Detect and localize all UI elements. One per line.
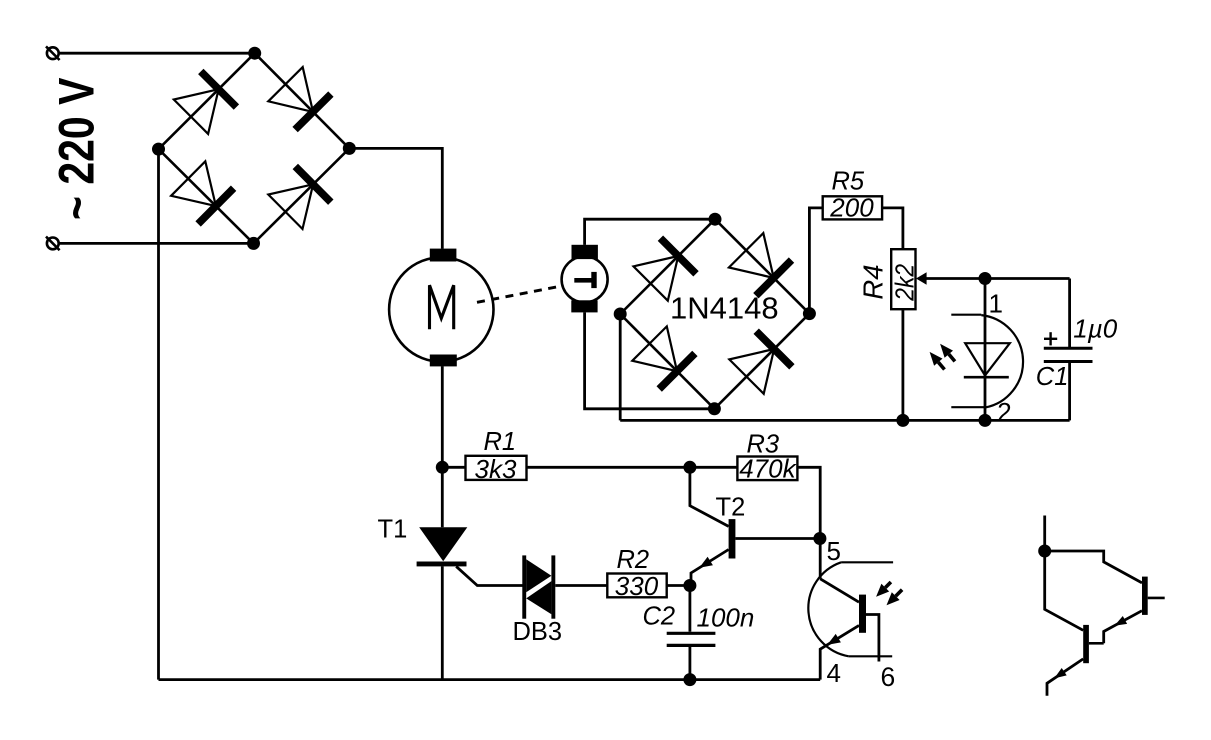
darlington wire to Q2 <box>1045 551 1084 630</box>
diac DB3 left bar <box>522 555 526 618</box>
svg-text:R5: R5 <box>832 167 865 195</box>
LED light arrow 2 <box>938 362 944 369</box>
node B2 left <box>614 308 627 321</box>
C1 plus sign <box>1044 338 1057 340</box>
node B1 bottom <box>247 237 260 250</box>
transistor T2 base lead <box>735 537 820 540</box>
capacitor C2 bottom plate <box>667 644 716 647</box>
node B1 left <box>152 143 165 156</box>
diode D3 (bridge B1 lower-left) <box>171 161 216 206</box>
wire B1 right node to motor <box>349 148 442 248</box>
wire LED branch <box>984 279 987 421</box>
optocoupler LED envelope arc <box>981 315 1023 408</box>
svg-text:1: 1 <box>989 288 1003 318</box>
svg-text:R1: R1 <box>484 428 517 456</box>
node B1 right <box>343 142 356 155</box>
node C2 rail <box>683 673 696 686</box>
capacitor C1 top plate <box>1044 347 1093 350</box>
LED light arrow 1 <box>949 354 955 361</box>
transistor Q2 emitter <box>1047 659 1083 696</box>
svg-text:3k3: 3k3 <box>475 454 517 484</box>
transistor Q2 base bar <box>1083 625 1089 663</box>
wire R4 bottom <box>902 309 905 420</box>
terminal X2 (mains bottom) <box>47 238 59 250</box>
svg-text:2k2: 2k2 <box>891 264 920 302</box>
phototransistor base bar <box>859 595 866 633</box>
diac DB3 lower triangle <box>526 581 551 614</box>
wire node5 down <box>819 539 822 579</box>
wire bridge B1 edge top-left <box>159 53 255 149</box>
transistor T2 base bar <box>729 519 736 558</box>
light arrow into phototransistor 2 <box>896 590 902 596</box>
wire bridge B1 edge bottom-left <box>159 149 254 243</box>
wire R1 to R3 node <box>527 466 690 469</box>
node B1 top <box>248 47 261 60</box>
node pin1 <box>979 272 992 285</box>
wire R5 to R4 <box>882 208 903 249</box>
svg-text:6: 6 <box>881 662 896 692</box>
svg-text:330: 330 <box>615 571 659 601</box>
wire bridge B1 edge top-right <box>255 53 350 148</box>
resistor R3 box <box>737 457 797 481</box>
tachogenerator letter T <box>574 278 592 283</box>
node B2 right <box>803 307 816 320</box>
node darlington collector <box>1038 545 1051 558</box>
optocoupler LED envelope bottom tick <box>951 406 985 408</box>
diode D6 (bridge B2 upper-right) <box>729 233 774 278</box>
wire bridge B1 edge bottom-right <box>254 148 350 243</box>
resistor R5 box <box>823 196 882 219</box>
wire motor bottom <box>441 366 444 527</box>
svg-text:DB3: DB3 <box>513 618 563 646</box>
wire R1 left stub <box>442 466 465 469</box>
optocoupler LED envelope top tick <box>951 314 981 316</box>
wire C2 top <box>689 586 692 632</box>
svg-text:5: 5 <box>827 536 841 566</box>
svg-text:T2: T2 <box>716 493 746 521</box>
transistor T2 collector <box>690 467 729 526</box>
wire common bottom rail <box>159 678 821 681</box>
phototransistor emitter <box>820 625 859 679</box>
wire C1 top <box>1068 279 1071 349</box>
terminal X1 (mains top) <box>47 47 59 59</box>
wire T1 gate <box>456 566 523 585</box>
resistor R2 box <box>607 574 666 598</box>
svg-text:1µ0: 1µ0 <box>1073 313 1117 343</box>
wire tacho bottom <box>585 312 715 408</box>
transistor Q1 base stub <box>1148 597 1165 600</box>
svg-text:C2: C2 <box>643 602 676 630</box>
dashed coupling motor-tacho <box>477 287 559 303</box>
diode D4 (bridge B1 lower-right) <box>268 184 313 229</box>
wire lower rail <box>620 419 1069 422</box>
transistor Q1 emitter <box>1104 611 1142 644</box>
thyristor T1 triangle <box>419 527 467 561</box>
motor M bottom brush <box>430 355 457 367</box>
wire B1 left node down to common rail <box>157 149 160 680</box>
diode D1 (bridge B1 upper-left) <box>174 89 219 134</box>
node R1 left <box>436 461 449 474</box>
diac DB3 right bar <box>551 555 555 618</box>
optocoupler phototransistor envelope arc <box>808 562 848 656</box>
resistor R1 box <box>466 456 527 480</box>
tachogenerator top brush <box>572 245 598 259</box>
transistor Q2 base lead <box>1089 642 1104 645</box>
light arrow into phototransistor 1 <box>885 582 891 588</box>
wire bridge B2 edge top-right <box>715 219 809 313</box>
phototransistor base lead pin6 <box>866 615 879 662</box>
wire tacho top <box>585 219 715 245</box>
wire R3 right to node5 <box>797 467 820 538</box>
wire mains top <box>59 52 255 55</box>
diode D5 (bridge B2 upper-left) <box>634 256 679 301</box>
darlington top stub <box>1043 516 1046 552</box>
diode D8 (bridge B2 lower-right) <box>729 349 774 394</box>
transistor Q2 emitter arrow <box>1054 668 1067 678</box>
svg-text:100n: 100n <box>697 603 755 633</box>
capacitor C1 bottom plate <box>1044 360 1093 363</box>
wire DB3 to R2 <box>555 584 607 587</box>
motor M top brush <box>430 249 457 262</box>
wire C2 bottom <box>689 647 692 680</box>
svg-text:~ 220 V: ~ 220 V <box>49 77 105 220</box>
wire bridge B2 edge top-left <box>620 219 715 314</box>
transistor T2 emitter arrow <box>699 557 713 568</box>
diode D7 (bridge B2 lower-left) <box>632 326 677 371</box>
wire bridge B2 edge bottom-right <box>714 314 809 409</box>
svg-text:4: 4 <box>827 658 841 688</box>
node B2 bottom <box>708 402 721 415</box>
optocoupler phototransistor envelope bottom tick <box>849 655 893 657</box>
wire R2 to node <box>667 584 690 587</box>
motor M letter <box>430 285 454 329</box>
tachogenerator bottom brush <box>571 300 597 312</box>
potentiometer R4 box <box>891 249 915 309</box>
optocoupler phototransistor envelope top tick <box>841 561 893 563</box>
phototransistor emitter arrow <box>827 634 841 645</box>
transistor Q1 base bar <box>1142 577 1148 615</box>
svg-text:2: 2 <box>997 397 1011 427</box>
transistor Q1 emitter arrow <box>1114 616 1127 626</box>
LED triangle <box>965 343 1010 375</box>
svg-text:R4: R4 <box>858 264 889 299</box>
wire T1 cathode down <box>441 566 444 679</box>
transistor T2 emitter <box>691 550 729 586</box>
capacitor C2 top plate <box>667 632 716 635</box>
node 5 <box>813 532 826 545</box>
phototransistor collector <box>820 579 859 602</box>
svg-text:T1: T1 <box>378 515 408 543</box>
motor M circle <box>389 257 493 361</box>
thyristor T1 cathode bar <box>417 562 467 567</box>
wire B2 left node down <box>619 314 622 420</box>
node pin2 <box>979 414 992 427</box>
wire mains bottom <box>59 242 254 245</box>
wire bridge B2 edge bottom-left <box>620 314 714 409</box>
node B2 top <box>709 213 722 226</box>
node R2-C2-T2 <box>683 579 696 592</box>
svg-text:C1: C1 <box>1036 363 1069 391</box>
svg-text:R2: R2 <box>617 546 650 574</box>
wire B2 right node up to R5 <box>809 208 822 314</box>
darlington wire to Q1 <box>1045 551 1142 583</box>
potentiometer R4 wiper arrow <box>916 272 927 285</box>
tachogenerator circle <box>562 256 608 302</box>
diode D2 (bridge B1 upper-right) <box>268 67 313 112</box>
wire C1 bottom <box>1068 362 1071 421</box>
wire R4 wiper to LED node <box>926 277 1069 280</box>
svg-text:470k: 470k <box>739 454 797 484</box>
node R1-R3-T2 <box>683 461 696 474</box>
node R4 bottom <box>896 414 909 427</box>
svg-text:200: 200 <box>829 193 874 223</box>
wire R3 left <box>690 466 738 469</box>
LED cathode line <box>964 376 1009 379</box>
svg-text:1N4148: 1N4148 <box>670 291 779 326</box>
diac DB3 upper triangle <box>526 559 551 592</box>
